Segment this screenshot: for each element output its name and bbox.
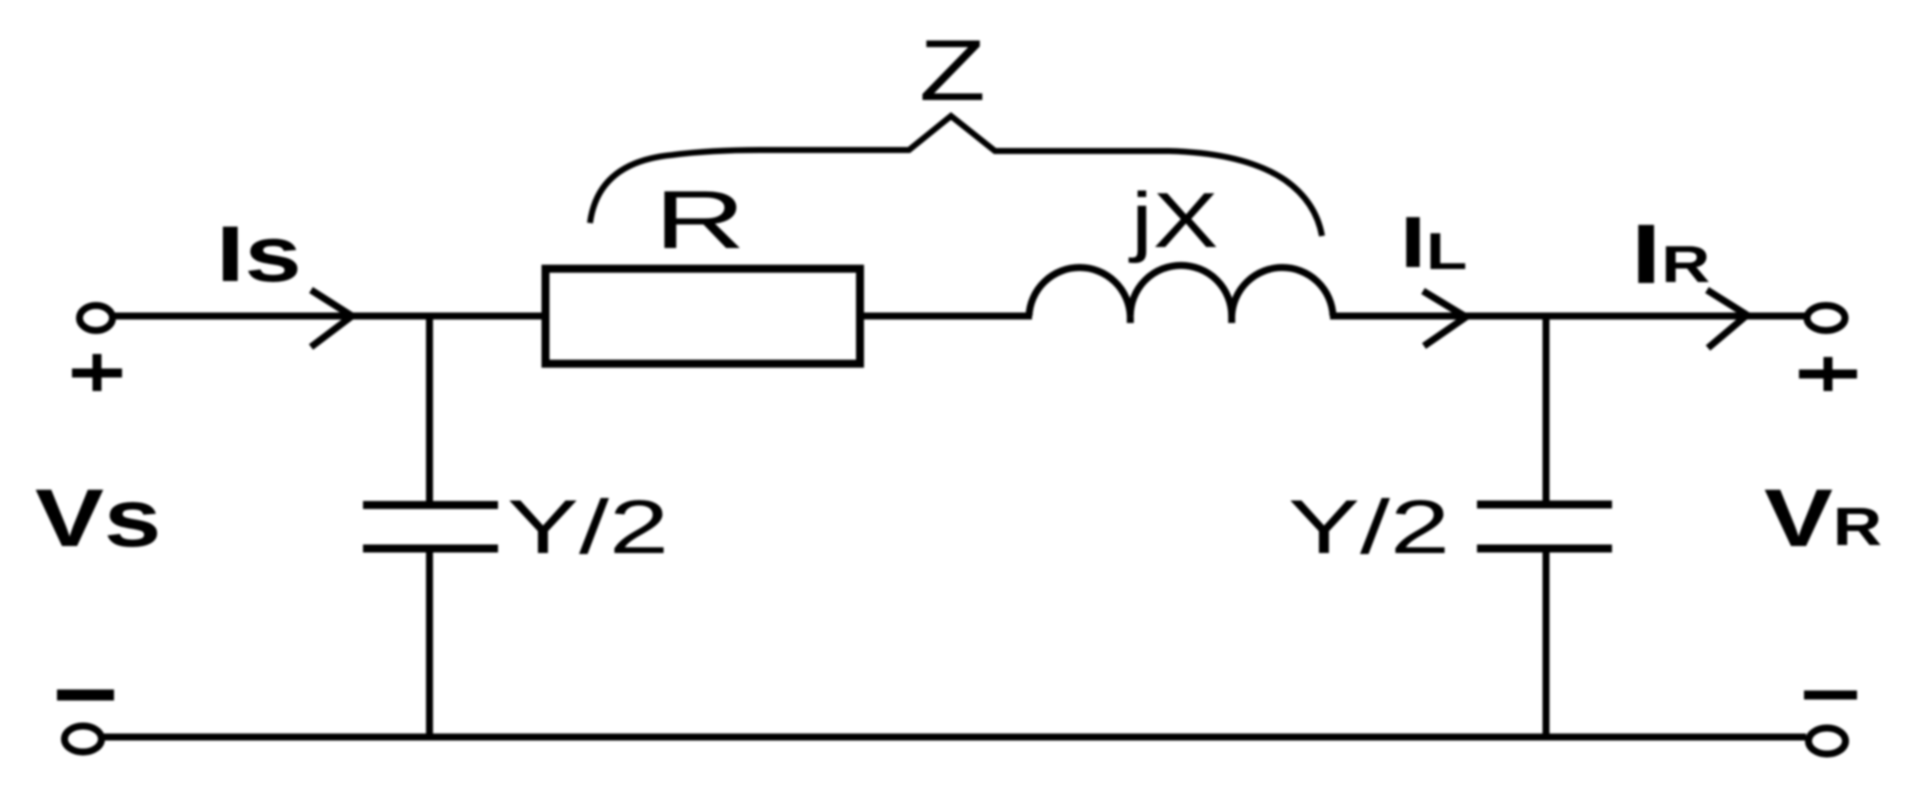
svg-text:Is: Is (216, 210, 302, 298)
minus sign receiving (1804, 691, 1857, 700)
svg-text:Z: Z (919, 22, 986, 118)
arrow Is (311, 290, 352, 347)
wire inductor to right terminal (1330, 313, 1806, 320)
terminal source negative (bottom-left) (65, 726, 102, 752)
capacitor C2 lower wire (1543, 549, 1550, 738)
wire between resistor and inductor (860, 313, 1032, 320)
node A (left shunt junction) vertical wire upper (426, 313, 433, 505)
capacitor C1 bottom plate (363, 545, 498, 553)
svg-text:VR: VR (1764, 472, 1882, 563)
resistor R (546, 269, 861, 364)
svg-text:Y/2: Y/2 (507, 485, 669, 570)
plus sign source (72, 354, 122, 391)
terminal receiving negative (bottom-right) (1809, 728, 1846, 754)
svg-text:IL: IL (1400, 201, 1467, 282)
minus sign source (57, 690, 114, 701)
arrow IR (1707, 290, 1747, 348)
svg-text:jX: jX (1128, 177, 1219, 264)
node B (right shunt junction) vertical wire upper (1543, 313, 1550, 505)
wire top-left segment (113, 313, 545, 320)
brace Z over series impedance (590, 116, 1322, 236)
arrow IL (1423, 291, 1466, 346)
terminal source positive (top-left) (80, 306, 113, 331)
inductor jX (1029, 265, 1333, 323)
svg-text:Y/2: Y/2 (1288, 485, 1450, 570)
wire bottom return (104, 734, 1806, 741)
terminal receiving positive (top-right) (1807, 306, 1845, 331)
plus sign receiving (1799, 357, 1857, 391)
svg-text:IR: IR (1631, 207, 1710, 301)
svg-text:R: R (654, 173, 746, 266)
capacitor C2 bottom plate (1477, 545, 1612, 553)
capacitor C2 top plate (1477, 501, 1612, 509)
svg-text:Vs: Vs (35, 472, 161, 563)
capacitor C1 lower wire (426, 549, 433, 738)
capacitor C1 top plate (363, 501, 498, 509)
